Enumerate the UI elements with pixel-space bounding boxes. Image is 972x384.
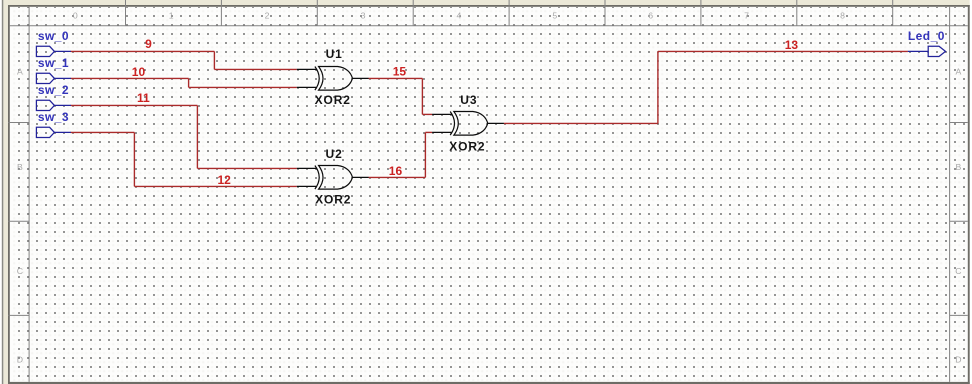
wire net 15 segment a (from U1 output) (369, 77, 423, 79)
svg-text:3: 3 (361, 11, 366, 21)
pin of sw_3 (54, 131, 71, 133)
svg-text:8: 8 (840, 11, 845, 21)
U3 xor input arc (450, 112, 454, 136)
wire net 16 segment b (424, 132, 426, 177)
input port sw_0 (36, 46, 71, 56)
svg-text:U1: U1 (326, 47, 343, 61)
U1 xor body outline (319, 67, 353, 91)
svg-text:A: A (17, 66, 23, 76)
U2 input pin I0 (297, 167, 317, 169)
wire net 15 segment c (to U3 pin I0) (422, 113, 432, 115)
U2 input pin I1 (297, 185, 317, 187)
svg-text:U3: U3 (460, 93, 477, 107)
svg-text:sw_1: sw_1 (38, 56, 69, 70)
wire net 13 segment a (from U3 output) (504, 122, 658, 124)
pin of sw_1 (54, 77, 71, 79)
U2 xor input arc (315, 166, 319, 190)
svg-text:D: D (17, 354, 23, 364)
svg-text:XOR2: XOR2 (449, 140, 485, 154)
svg-text:U2: U2 (326, 147, 343, 161)
wire net 10 segment b (188, 78, 190, 87)
U2 xor body outline (319, 166, 353, 190)
wire net 13 segment c (to Led_0) (658, 50, 908, 52)
svg-text:sw_2: sw_2 (38, 83, 69, 97)
svg-text:Led_0: Led_0 (908, 29, 945, 43)
svg-text:XOR2: XOR2 (315, 93, 351, 107)
svg-text:XOR2: XOR2 (315, 192, 351, 206)
wire net 13 segment b (657, 51, 659, 123)
U2 output pin O (352, 176, 368, 178)
svg-text:A: A (956, 66, 962, 76)
input port sw_1 (36, 73, 71, 83)
wire net 12 segment a (from sw_3) (71, 131, 135, 133)
wire net 11 segment a (from sw_2) (71, 104, 198, 106)
pin of Led_0 (908, 50, 928, 52)
svg-text:0: 0 (73, 11, 78, 21)
svg-text:5: 5 (552, 11, 557, 21)
svg-text:7: 7 (744, 11, 749, 21)
U3 input pin I1 (432, 131, 452, 133)
wire net 15 segment b (421, 78, 423, 114)
svg-text:15: 15 (393, 65, 407, 79)
wire net 11 segment c (to U2 pin I0) (197, 167, 296, 169)
wire net 12 segment b (133, 132, 135, 186)
pin of sw_2 (54, 104, 71, 106)
wire net 12 segment c (to U2 pin I1) (134, 185, 296, 187)
svg-text:12: 12 (218, 173, 232, 187)
wire net 16 segment c (to U3 pin I1) (425, 131, 432, 133)
svg-text:sw_0: sw_0 (38, 29, 69, 43)
U3 xor body outline (454, 112, 488, 136)
wire net 10 segment c (to U1 pin I1) (189, 86, 297, 88)
svg-text:13: 13 (785, 38, 799, 52)
svg-text:9: 9 (145, 37, 152, 51)
svg-text:sw_3: sw_3 (38, 110, 69, 124)
pin of sw_0 (54, 50, 71, 52)
U3 output pin O (488, 122, 504, 124)
U1 xor input arc (315, 67, 319, 91)
output port Led_0 (908, 46, 946, 56)
wire net 9 segment a (from sw_0) (71, 50, 215, 52)
svg-text:C: C (955, 266, 961, 276)
svg-text:1: 1 (169, 11, 174, 21)
xor gate U1 (XOR2) (297, 67, 369, 91)
svg-text:11: 11 (137, 91, 150, 105)
wire net 10 segment a (from sw_1) (71, 77, 189, 79)
wire net 16 segment a (from U2 output) (369, 176, 426, 178)
xor gate U3 (XOR2) (432, 112, 504, 136)
U1 input pin I1 (297, 86, 317, 88)
svg-text:6: 6 (648, 11, 653, 21)
svg-text:B: B (956, 162, 962, 172)
input port sw_2 (36, 100, 71, 110)
wire net 9 segment b (213, 51, 215, 69)
wire net 11 segment b (196, 105, 198, 168)
svg-text:16: 16 (389, 164, 403, 178)
wire net 9 segment c (to U1 pin I0) (214, 68, 296, 70)
U3 input pin I0 (432, 113, 452, 115)
svg-text:D: D (955, 354, 961, 364)
svg-text:2: 2 (265, 11, 270, 21)
xor gate U2 (XOR2) (297, 166, 369, 190)
svg-text:C: C (17, 266, 23, 276)
U1 output pin O (352, 77, 368, 79)
svg-text:B: B (17, 162, 23, 172)
svg-text:4: 4 (456, 11, 461, 21)
U1 input pin I0 (297, 68, 317, 70)
svg-text:10: 10 (132, 65, 146, 79)
input port sw_3 (36, 127, 71, 137)
